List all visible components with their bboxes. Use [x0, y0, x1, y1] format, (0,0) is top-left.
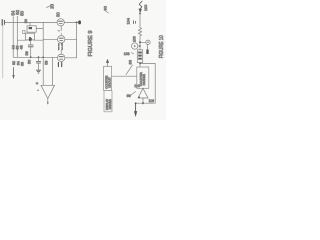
- svg-text:106: 106: [132, 36, 136, 42]
- ground: [36, 69, 40, 71]
- svg-text:CIRCUIT: CIRCUIT: [108, 77, 112, 88]
- svg-text:DRIVER: DRIVER: [108, 99, 112, 109]
- wire center long vertical: [42, 22, 44, 84]
- svg-text:66: 66: [21, 62, 25, 66]
- svg-text:+: +: [36, 81, 39, 86]
- svg-text:20: 20: [49, 3, 54, 8]
- small box mark: [23, 31, 25, 34]
- transistor Q2 circle: [58, 36, 65, 43]
- svg-text:30: 30: [55, 12, 60, 17]
- capacitor C3: [58, 44, 60, 46]
- svg-text:116: 116: [149, 99, 155, 103]
- wire right input vertical: [52, 57, 54, 84]
- wire below resistor: [139, 36, 141, 50]
- svg-text:100: 100: [144, 5, 148, 11]
- capacitor C1: [28, 44, 33, 46]
- antenna arrow: [139, 1, 142, 9]
- capacitor C5: [57, 62, 59, 66]
- crystal box: [137, 50, 142, 63]
- oscillator box: [137, 67, 149, 88]
- node lower: [42, 56, 44, 58]
- svg-text:48: 48: [20, 45, 24, 49]
- svg-text:50: 50: [19, 10, 24, 15]
- svg-text:108: 108: [124, 52, 130, 56]
- stub cap marks: [133, 21, 135, 24]
- node antenna: [139, 13, 141, 15]
- capacitor C2: [58, 29, 60, 31]
- transistor circle A: [132, 43, 138, 49]
- op-amp U1: [41, 85, 55, 98]
- wire second vertical: [16, 16, 18, 57]
- wire left vertical long: [12, 17, 14, 58]
- box lower: [26, 33, 35, 40]
- resistor R1 zigzag: [138, 28, 141, 37]
- wire from circle B down: [147, 45, 149, 50]
- svg-text:58: 58: [25, 51, 29, 55]
- arrow down left: [13, 68, 15, 77]
- divider box 1: [104, 66, 112, 90]
- transistor Q3 circle: [58, 54, 65, 61]
- arrow above box1: [107, 62, 109, 66]
- wire box1 to main: [112, 75, 137, 77]
- amplifier U2: [138, 88, 148, 98]
- output stub: [142, 98, 144, 103]
- leader to amp: [131, 92, 136, 96]
- wire left edge vertical: [2, 25, 4, 78]
- circle B: [146, 40, 150, 44]
- svg-text:90: 90: [102, 5, 107, 10]
- wire to circle B: [140, 41, 146, 43]
- svg-text:96: 96: [128, 59, 133, 64]
- capacitor blob: [146, 50, 148, 55]
- node mid: [29, 39, 31, 41]
- input terminal bars: [1, 20, 3, 26]
- node: [139, 41, 141, 43]
- box upper: [27, 26, 36, 32]
- label 96 leader: [126, 65, 133, 75]
- svg-text:58: 58: [45, 61, 49, 65]
- wire top horizontal: [5, 21, 57, 23]
- wire into osc box: [139, 63, 141, 68]
- svg-text:24: 24: [24, 19, 28, 23]
- wire lower horizontal: [13, 56, 57, 58]
- svg-text:FIGURE 10: FIGURE 10: [159, 35, 165, 58]
- node right junction: [76, 22, 78, 24]
- terminal blob right: [78, 20, 81, 24]
- wire right vertical: [76, 22, 78, 57]
- down arrow: [135, 102, 137, 104]
- wire column verticals: [60, 26, 62, 31]
- wire mid horizontal: [17, 39, 27, 41]
- wire branch right: [140, 63, 155, 65]
- svg-text:110: 110: [134, 84, 140, 88]
- output bus: [136, 102, 156, 104]
- divider box 2: [104, 91, 112, 112]
- wire main vertical upper: [139, 12, 141, 28]
- svg-text:98: 98: [127, 94, 131, 98]
- svg-text:56: 56: [28, 60, 32, 64]
- node dot inside: [138, 96, 140, 98]
- capacitor C4: [38, 56, 40, 58]
- svg-text:FIGURE 9: FIGURE 9: [88, 31, 94, 57]
- svg-text:104: 104: [126, 18, 130, 24]
- transistor Q1 circle: [57, 19, 64, 26]
- svg-text:DIVIDER: DIVIDER: [142, 74, 146, 85]
- wire box drop: [29, 22, 31, 25]
- wire box to vertical: [36, 28, 43, 30]
- label 20 leader: [47, 6, 52, 8]
